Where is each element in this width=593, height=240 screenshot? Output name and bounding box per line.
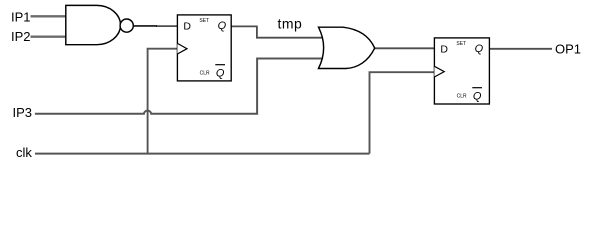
- svg-text:clk: clk: [16, 145, 32, 160]
- svg-text:tmp: tmp: [278, 16, 303, 32]
- wire DFF2 Q to OP1: [490, 48, 552, 50]
- svg-text:OP1: OP1: [555, 42, 581, 57]
- svg-text:CLR: CLR: [457, 94, 467, 100]
- DFF2 pin label Qbar (Q with overline): [472, 88, 482, 103]
- OR gate body: [319, 27, 375, 68]
- DFF1 pin label Qbar (Q with overline): [215, 65, 225, 80]
- wire clk branch up to DFF1 clock (junction at x=147.6): [148, 49, 178, 154]
- DFF1 clock input triangle: [177, 43, 187, 54]
- wire NAND output to DFF1 D input: [156, 25, 178, 27]
- svg-text:D: D: [183, 21, 191, 33]
- wire IP1 to NAND input: [31, 15, 67, 17]
- svg-text:IP2: IP2: [11, 29, 31, 44]
- svg-text:SET: SET: [199, 18, 209, 24]
- D flip-flop 2 box: [434, 38, 489, 104]
- DFF2 clock input triangle: [434, 66, 444, 77]
- NAND gate inversion bubble: [120, 19, 133, 32]
- wire clk horizontal run: [35, 153, 370, 155]
- svg-text:CLR: CLR: [200, 71, 210, 77]
- svg-text:IP3: IP3: [13, 105, 33, 120]
- D flip-flop 1 box: [177, 15, 231, 81]
- svg-text:IP1: IP1: [11, 9, 31, 24]
- wire stub bubble to gray wire (black): [134, 25, 157, 27]
- wire IP3 to OR gate bottom input (hops over clk branch): [35, 59, 325, 114]
- svg-text:SET: SET: [456, 41, 466, 47]
- wire OR output to DFF2 D input: [375, 47, 435, 49]
- svg-text:Q: Q: [218, 20, 227, 32]
- svg-text:Q: Q: [475, 43, 484, 55]
- svg-text:Q: Q: [216, 68, 225, 80]
- wire DFF1 Q to OR gate top input: [231, 26, 325, 37]
- NAND gate body: [66, 5, 121, 44]
- svg-text:Q: Q: [473, 91, 482, 103]
- svg-text:D: D: [440, 44, 448, 56]
- wire clk branch up to DFF2 clock: [370, 72, 435, 153]
- wire IP2 to NAND input: [31, 36, 67, 38]
